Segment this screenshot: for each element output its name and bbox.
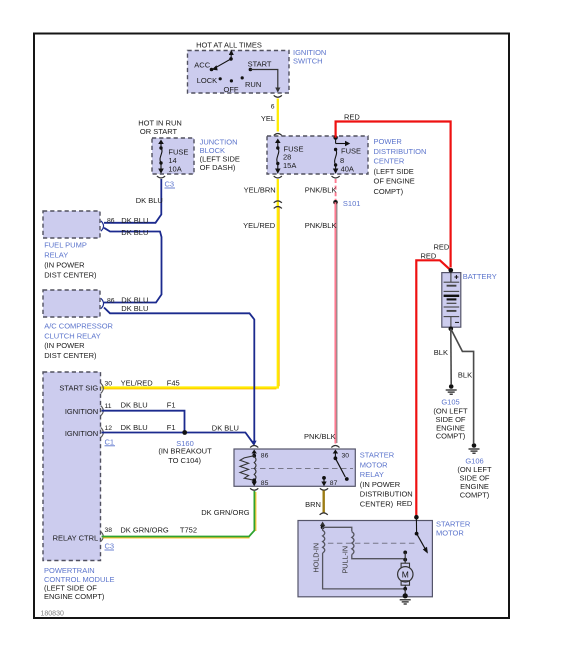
svg-text:RED: RED [421, 251, 437, 260]
starter motor switch contact [403, 551, 407, 564]
svg-text:F1: F1 [167, 401, 176, 410]
BLK wire label (G106) [458, 371, 472, 380]
svg-text:PNK/BLK: PNK/BLK [305, 186, 337, 195]
wire RED (PDC fuse 8 to battery positive) [336, 122, 451, 268]
starter relay pin 85 [252, 478, 269, 487]
svg-text:DIST CENTER): DIST CENTER) [44, 271, 97, 280]
svg-text:30: 30 [105, 381, 113, 388]
DK BLU label (S160 to relay) [212, 423, 239, 432]
svg-text:YEL/RED: YEL/RED [243, 221, 276, 230]
svg-text:FUSE: FUSE [341, 146, 361, 155]
svg-text:C3: C3 [165, 180, 175, 189]
power distribution center box [267, 136, 368, 174]
svg-text:DK BLU: DK BLU [121, 304, 148, 313]
svg-text:OR START: OR START [140, 127, 178, 136]
battery cells [444, 273, 460, 328]
fuel pump relay pin bracket 86 [101, 218, 115, 232]
DK BLU wire label (below C3) [136, 196, 163, 205]
PCM pin 38 RELAY CTRL [53, 527, 113, 543]
svg-text:A/C COMPRESSOR: A/C COMPRESSOR [44, 322, 113, 331]
starter relay coil [254, 457, 256, 481]
svg-text:DISTRIBUTION: DISTRIBUTION [360, 490, 413, 499]
wire PNK/BLK dashed (PDC fuse 8 to splice S101) [335, 179, 337, 200]
svg-text:YEL/BRN: YEL/BRN [244, 186, 276, 195]
svg-text:DK GRN/ORG: DK GRN/ORG [120, 525, 169, 534]
battery minus sign [455, 321, 459, 323]
svg-text:COMPT): COMPT) [436, 432, 466, 441]
pull-in coil [341, 532, 354, 574]
svg-text:DK BLU: DK BLU [212, 423, 239, 432]
svg-text:RUN: RUN [245, 80, 261, 89]
hold-in coil to ground wire [323, 553, 404, 589]
svg-text:IGNITION: IGNITION [65, 407, 98, 416]
svg-text:STARTER: STARTER [360, 451, 395, 460]
svg-text:30: 30 [342, 453, 350, 460]
wire DK GRN/ORG (PCM pin 38 to starter relay pin 85) [102, 491, 256, 538]
connector half above starter motor [320, 513, 328, 515]
svg-text:START SIG: START SIG [59, 384, 98, 393]
svg-text:CLUTCH RELAY: CLUTCH RELAY [44, 331, 101, 340]
starter relay switch blade [335, 458, 348, 481]
battery plus sign [454, 275, 458, 279]
inline connector on yellow wire [274, 201, 282, 209]
wire DK BLU (PCM pin 11 to S160) [102, 401, 185, 431]
junction block box [152, 138, 194, 174]
wire BLK (battery to G106) [451, 329, 474, 444]
PCM pin 30 START SIG [59, 381, 112, 394]
svg-text:OFF: OFF [224, 85, 239, 94]
connector half below starter relay pin 87 [320, 488, 328, 490]
starter motor mechanical link (dashed) [328, 542, 417, 544]
svg-text:BLK: BLK [434, 348, 448, 357]
YEL/RED wire label [243, 221, 276, 230]
node HOT IN RUN OR START [138, 118, 182, 136]
connector half below PDC fuse 8 [332, 176, 340, 178]
svg-text:S101: S101 [343, 199, 361, 208]
svg-text:BLK: BLK [458, 371, 472, 380]
svg-text:MOTOR: MOTOR [360, 460, 388, 469]
svg-text:M: M [402, 569, 409, 579]
svg-text:C3: C3 [105, 542, 115, 551]
wire from START through box bottom [250, 70, 280, 93]
PCM pin 11 IGNITION [65, 403, 112, 416]
svg-text:ENGINE COMPT): ENGINE COMPT) [44, 592, 105, 601]
connector half below junction block [157, 176, 165, 178]
svg-text:DK BLU: DK BLU [121, 228, 148, 237]
svg-text:DK BLU: DK BLU [121, 216, 148, 225]
svg-text:START: START [248, 59, 272, 68]
power distribution center label [374, 137, 427, 196]
svg-text:MOTOR: MOTOR [436, 529, 464, 538]
fuel pump relay box [43, 211, 100, 238]
starter motor entry arrow [320, 522, 325, 530]
svg-text:OF DASH): OF DASH) [200, 163, 236, 172]
wire to pull-in coil [323, 527, 352, 531]
ignition switch box [188, 51, 290, 94]
connector half below starter relay pin 85 [250, 488, 258, 490]
wire DK BLU (fuel pump relay to A/C compressor clutch relay pin 86) [104, 228, 162, 303]
svg-text:DK BLU: DK BLU [136, 196, 163, 205]
svg-text:(IN POWER: (IN POWER [360, 480, 401, 489]
svg-text:RELAY: RELAY [360, 470, 384, 479]
svg-text:HOLD-IN: HOLD-IN [312, 543, 321, 573]
RED wire label (battery branch) [421, 251, 437, 260]
svg-text:POWER: POWER [374, 137, 403, 146]
svg-text:(IN POWER: (IN POWER [44, 260, 85, 269]
wire YEL/RED label + circuit F45 [121, 379, 180, 388]
pin 6 label [271, 104, 275, 111]
A/C relay pin bracket 86 [101, 298, 115, 309]
wire RED (battery positive to starter motor) [416, 260, 451, 515]
svg-text:CENTER): CENTER) [360, 500, 394, 509]
svg-text:DK GRN/ORG: DK GRN/ORG [201, 508, 250, 517]
pull-in coil to motor wire [352, 555, 404, 559]
connector C3 label (PCM) [105, 542, 115, 551]
node HOT AT ALL TIMES [196, 41, 262, 50]
svg-text:DIST CENTER): DIST CENTER) [44, 351, 97, 360]
starter relay pin 86 [252, 450, 269, 460]
starter relay pin 30 [333, 450, 350, 461]
svg-text:F1: F1 [167, 423, 176, 432]
battery positive node [449, 268, 454, 273]
svg-text:DK BLU: DK BLU [121, 423, 148, 432]
svg-text:STARTER: STARTER [436, 520, 471, 529]
svg-text:PNK/BLK: PNK/BLK [304, 432, 336, 441]
ground G106 [469, 443, 480, 453]
svg-text:FUEL PUMP: FUEL PUMP [44, 240, 87, 249]
ignition switch blade arm (to ACC) [212, 50, 234, 71]
YEL/BRN wire label [244, 186, 276, 195]
motor M [398, 563, 413, 595]
svg-text:12: 12 [105, 425, 113, 432]
wire DK BLU (PCM pin 12 through S160 to starter relay pin 86) [102, 423, 255, 444]
svg-text:11: 11 [105, 403, 112, 410]
starter motor solenoid switch [414, 515, 428, 554]
connector half below PDC fuse 28 [274, 176, 282, 178]
svg-text:CENTER: CENTER [374, 157, 405, 166]
arrowhead into starter relay pin 86 [251, 441, 257, 446]
starter motor box [298, 521, 432, 597]
connector half above starter relay pin 86 [250, 446, 258, 448]
svg-text:(LEFT SIDE: (LEFT SIDE [374, 167, 414, 176]
svg-text:TO C104): TO C104) [168, 456, 201, 465]
svg-text:RED: RED [344, 113, 360, 122]
wire PNK/BLK (S101 to starter relay pin 30) [335, 202, 337, 443]
fuse 28 15A (PDC) [275, 139, 304, 174]
svg-text:87: 87 [330, 480, 338, 487]
svg-text:POWERTRAIN: POWERTRAIN [44, 566, 95, 575]
ground G105 [446, 384, 457, 394]
A/C compressor clutch relay label [44, 322, 113, 361]
svg-text:COMPT): COMPT) [460, 491, 490, 500]
svg-text:PNK/BLK: PNK/BLK [305, 221, 337, 230]
diagram number 180830 [41, 611, 64, 618]
A/C compressor clutch relay box [43, 290, 100, 317]
svg-text:15A: 15A [283, 161, 296, 170]
svg-text:OF ENGINE: OF ENGINE [374, 177, 415, 186]
svg-text:86: 86 [261, 453, 269, 460]
wire BRN (starter relay pin 87 to starter motor) [323, 491, 325, 513]
connector C1 label [105, 437, 116, 446]
svg-text:C1: C1 [105, 437, 115, 446]
svg-text:YEL: YEL [261, 114, 275, 123]
PNK/BLK wire label (at relay) [304, 432, 336, 441]
PNK/BLK wire label (upper) [305, 186, 337, 195]
starter relay pin 87 [321, 476, 337, 487]
connector half below ignition switch [274, 95, 282, 97]
powertrain control module box [43, 372, 101, 561]
wire BLK (battery to G105) [450, 329, 452, 385]
starter relay coil shunt resistor [240, 456, 254, 481]
RED wire label (right vertical) [434, 243, 450, 252]
battery negative node [449, 327, 454, 332]
battery label [463, 272, 497, 281]
BLK wire label (G105) [434, 348, 448, 357]
svg-text:BRN: BRN [305, 500, 321, 509]
svg-text:HOT AT ALL TIMES: HOT AT ALL TIMES [196, 41, 262, 50]
fuse 8 40A (PDC) [333, 135, 361, 173]
svg-text:40A: 40A [341, 165, 354, 174]
svg-text:YEL/RED: YEL/RED [121, 379, 154, 388]
PCM pin 12 IGNITION [65, 425, 112, 438]
splice S160 [158, 430, 212, 465]
BRN wire label [305, 500, 321, 509]
RED wire label (top) [344, 113, 360, 122]
DK BLU wire label (to A/C relay) [121, 228, 148, 237]
svg-text:(IN BREAKOUT: (IN BREAKOUT [158, 447, 212, 456]
ground G105 label [433, 398, 468, 441]
DK BLU wire label (to starter relay) [121, 304, 148, 313]
ground G106 label [457, 457, 492, 500]
svg-text:ACC: ACC [194, 61, 210, 70]
wire DK BLU (A/C relay to starter relay pin 86) [104, 308, 254, 445]
svg-text:RELAY CTRL: RELAY CTRL [53, 534, 99, 543]
powertrain control module label [44, 566, 115, 601]
YEL wire label [261, 114, 275, 123]
connector half above starter relay pin 30 [331, 446, 339, 448]
svg-text:38: 38 [105, 527, 113, 534]
ignition switch positions [194, 57, 272, 94]
fuse 14 10A (junction block) [158, 140, 188, 174]
svg-text:T752: T752 [180, 525, 197, 534]
junction block label [200, 137, 240, 172]
wire YEL (ignition to PDC) [277, 99, 279, 132]
fuel pump relay label [44, 240, 97, 279]
DK BLU wire label (fuel pump out) [121, 216, 148, 225]
svg-text:DK BLU: DK BLU [121, 296, 148, 305]
svg-text:SWITCH: SWITCH [293, 57, 323, 66]
starter motor relay box [234, 449, 355, 486]
svg-text:86: 86 [107, 218, 115, 225]
svg-text:RED: RED [434, 243, 450, 252]
svg-text:85: 85 [261, 480, 269, 487]
svg-text:RED: RED [397, 499, 413, 508]
splice S101 [333, 199, 360, 208]
ignition switch label [293, 48, 326, 66]
svg-text:BATTERY: BATTERY [463, 272, 497, 281]
svg-text:G105: G105 [441, 398, 459, 407]
svg-text:180830: 180830 [41, 611, 64, 618]
RED wire label (at starter motor) [397, 499, 413, 508]
svg-text:COMPT): COMPT) [374, 187, 404, 196]
connector C3 label (junction block) [165, 180, 176, 189]
wire DK BLU (junction block C3 to fuel pump relay pin 86) [104, 179, 161, 223]
svg-text:6: 6 [271, 104, 275, 111]
starter motor relay label [360, 451, 413, 509]
ground (starter motor internal) [400, 593, 411, 604]
svg-text:DK BLU: DK BLU [121, 401, 148, 410]
starter relay mechanical link (dashed) [251, 468, 353, 470]
connector half above PDC [274, 134, 282, 136]
svg-text:RELAY: RELAY [44, 251, 68, 260]
svg-text:86: 86 [107, 298, 115, 305]
svg-text:IGNITION: IGNITION [65, 429, 98, 438]
DK BLU wire label (A/C out upper) [121, 296, 148, 305]
svg-text:PULL-IN: PULL-IN [341, 546, 350, 574]
wire YEL/BRN then YEL/RED (PDC fuse 28 to PCM pin 30) [102, 179, 280, 389]
svg-text:LOCK: LOCK [197, 76, 217, 85]
DK GRN/ORG wire label (at relay) [201, 508, 250, 517]
svg-text:F45: F45 [167, 379, 180, 388]
starter motor label [436, 520, 471, 538]
battery box [442, 273, 461, 328]
svg-text:10A: 10A [168, 164, 181, 173]
hold-in coil [312, 527, 325, 572]
svg-text:DISTRIBUTION: DISTRIBUTION [374, 147, 427, 156]
svg-text:(IN POWER: (IN POWER [44, 341, 85, 350]
PNK/BLK wire label (mid) [305, 221, 337, 230]
